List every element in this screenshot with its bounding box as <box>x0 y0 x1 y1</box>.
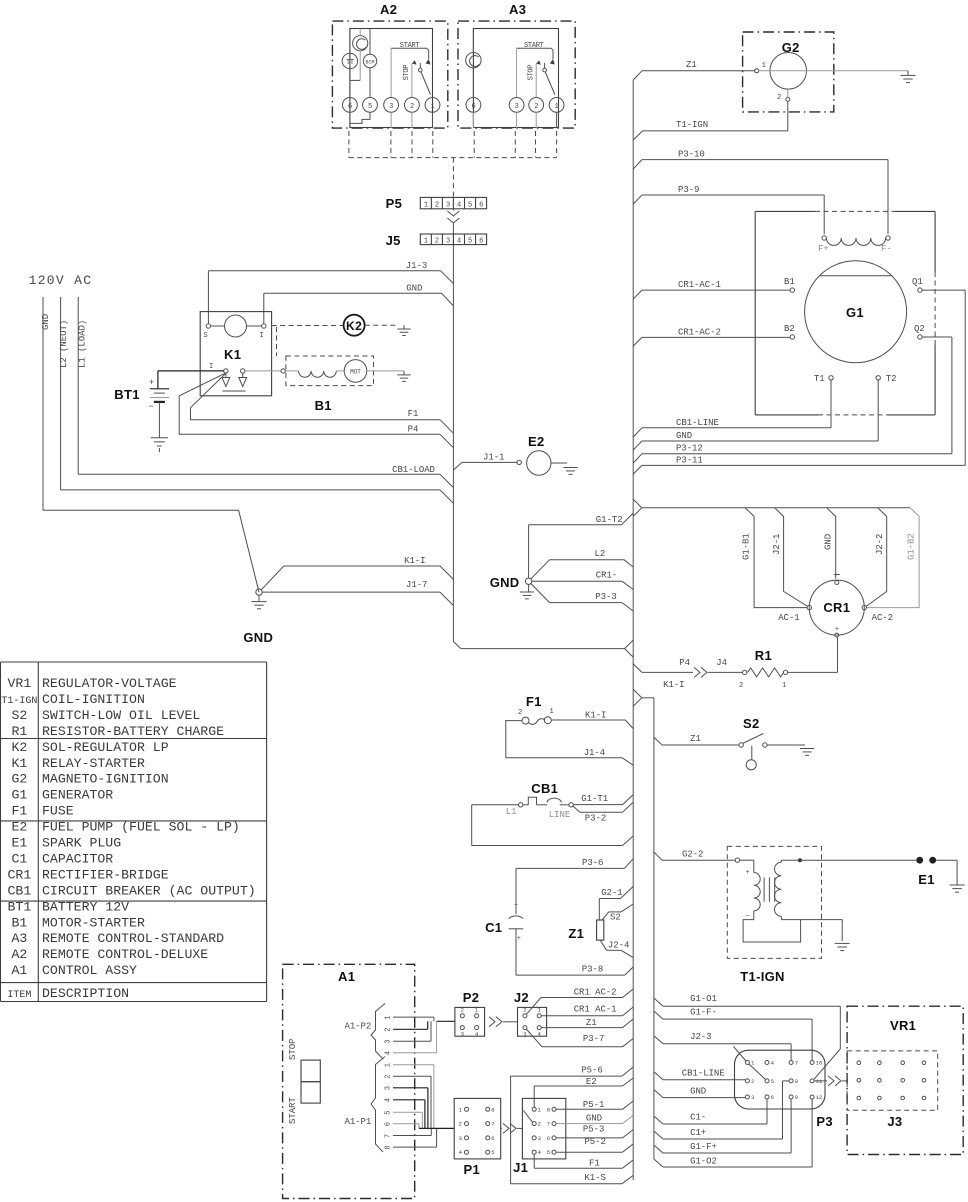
svg-text:REMOTE CONTROL-STANDARD: REMOTE CONTROL-STANDARD <box>42 931 224 946</box>
T1-IGN primary <box>740 859 754 861</box>
svg-text:8: 8 <box>547 1106 550 1113</box>
svg-text:4: 4 <box>457 201 461 209</box>
svg-text:4: 4 <box>385 1051 393 1055</box>
CR1 terminal AC-2 <box>862 605 866 609</box>
svg-text:GND: GND <box>490 575 520 590</box>
relay K1 box <box>200 312 271 396</box>
svg-text:GND: GND <box>586 1114 602 1124</box>
J1 internal diagonal <box>524 1111 533 1123</box>
svg-text:2: 2 <box>523 1007 526 1014</box>
field terminal F+ <box>822 236 826 240</box>
bundle arrow to branch <box>633 689 642 706</box>
S2 oil sensor <box>751 746 753 760</box>
svg-text:5: 5 <box>468 238 472 246</box>
svg-text:6: 6 <box>491 1135 494 1142</box>
svg-text:T1-IGN: T1-IGN <box>740 969 784 984</box>
ground hub junction <box>256 589 262 595</box>
svg-text:SWITCH-LOW OIL LEVEL: SWITCH-LOW OIL LEVEL <box>42 708 200 723</box>
svg-text:C1-: C1- <box>690 1113 706 1123</box>
connector J2 <box>518 1007 547 1036</box>
svg-text:2: 2 <box>435 238 439 246</box>
svg-text:P2: P2 <box>463 990 480 1005</box>
svg-text:P3-8: P3-8 <box>582 965 603 975</box>
connector P3 <box>735 1050 826 1109</box>
connector J5 <box>420 234 486 245</box>
svg-text:3: 3 <box>461 1030 464 1037</box>
svg-text:P3: P3 <box>816 1114 833 1129</box>
magneto G2 enclosure <box>743 32 834 112</box>
J3 pins <box>857 1061 861 1065</box>
svg-text:J1-4: J1-4 <box>584 748 605 758</box>
svg-text:CB1: CB1 <box>531 781 558 796</box>
svg-text:GND: GND <box>676 431 692 441</box>
svg-text:CB1-LINE: CB1-LINE <box>682 1069 725 1079</box>
svg-text:2: 2 <box>459 1121 462 1128</box>
svg-text:7: 7 <box>385 1134 393 1138</box>
svg-text:L1: L1 <box>506 807 517 817</box>
svg-text:VR1: VR1 <box>890 1018 916 1033</box>
svg-text:STOP: STOP <box>288 1039 298 1060</box>
A2 pin 1 <box>425 98 440 113</box>
svg-text:START: START <box>288 1097 298 1124</box>
svg-text:START: START <box>524 42 544 50</box>
A1-P1 bracket <box>371 1057 385 1153</box>
ground hub center <box>525 578 531 584</box>
P2 to J2 arrows <box>489 1017 495 1027</box>
svg-text:J2-3: J2-3 <box>690 1032 711 1042</box>
ground symbol E1 <box>950 884 965 886</box>
svg-text:8: 8 <box>491 1106 494 1113</box>
svg-text:2: 2 <box>518 709 522 717</box>
harness drop to P5 <box>452 158 454 198</box>
svg-text:+: + <box>835 626 839 634</box>
svg-text:CONTROL ASSY: CONTROL ASSY <box>42 963 137 978</box>
svg-text:K1-S: K1-S <box>584 1173 605 1183</box>
svg-text:3: 3 <box>523 1030 526 1037</box>
A3 pin 6 <box>466 98 481 113</box>
svg-text:K1: K1 <box>224 347 241 362</box>
svg-text:F1: F1 <box>526 694 542 709</box>
svg-text:6: 6 <box>547 1135 550 1142</box>
svg-text:C1+: C1+ <box>690 1128 706 1138</box>
parts list table <box>1 661 267 663</box>
svg-text:TT: TT <box>346 59 354 67</box>
svg-text:P5-3: P5-3 <box>583 1125 604 1135</box>
svg-text:K2: K2 <box>346 319 362 333</box>
svg-text:A1-P2: A1-P2 <box>345 1022 372 1032</box>
B1 terminal <box>281 369 285 373</box>
svg-text:1: 1 <box>431 103 435 111</box>
svg-text:CR1 AC-2: CR1 AC-2 <box>574 988 617 998</box>
line L1 LOAD <box>77 297 79 474</box>
svg-text:+: + <box>149 378 154 388</box>
svg-text:LINE: LINE <box>549 810 570 820</box>
sol-regulator K2 dashed wire <box>272 325 344 327</box>
svg-text:3: 3 <box>446 201 450 209</box>
svg-text:GND: GND <box>690 1087 706 1097</box>
svg-text:J5: J5 <box>386 233 401 248</box>
svg-text:G1-T2: G1-T2 <box>596 515 623 525</box>
svg-text:G1: G1 <box>11 788 27 803</box>
svg-text:CR1 AC-1: CR1 AC-1 <box>574 1005 617 1015</box>
spark plug E1 <box>916 857 923 864</box>
left bundle merge wire <box>461 648 625 650</box>
svg-text:10: 10 <box>816 1060 823 1067</box>
svg-text:G1-F-: G1-F- <box>690 1008 717 1018</box>
svg-text:B1: B1 <box>315 398 332 413</box>
svg-text:5: 5 <box>547 1149 550 1156</box>
A2 pin 6 <box>343 98 358 113</box>
svg-text:1: 1 <box>385 1016 393 1020</box>
svg-text:AC-2: AC-2 <box>872 613 893 623</box>
P3 pin1 to pin5 diagonal <box>749 1064 766 1080</box>
svg-text:BT1: BT1 <box>8 899 32 914</box>
svg-text:G1-B1: G1-B1 <box>741 533 751 560</box>
svg-text:C1: C1 <box>485 920 502 935</box>
svg-text:J4: J4 <box>716 658 727 668</box>
svg-text:−: − <box>514 902 518 910</box>
svg-text:F1: F1 <box>11 804 27 819</box>
svg-text:RELAY-STARTER: RELAY-STARTER <box>42 756 145 771</box>
svg-text:CB1-LINE: CB1-LINE <box>676 418 719 428</box>
svg-text:B1: B1 <box>784 277 795 287</box>
svg-text:2: 2 <box>385 1075 393 1079</box>
G2 pin 2 <box>786 97 790 101</box>
svg-text:C1: C1 <box>11 851 27 866</box>
svg-text:P3-2: P3-2 <box>585 814 606 824</box>
svg-text:A1-P1: A1-P1 <box>345 1117 372 1127</box>
svg-text:J2: J2 <box>514 990 529 1005</box>
svg-text:P1: P1 <box>464 1162 481 1177</box>
svg-text:SPARK PLUG: SPARK PLUG <box>42 836 121 851</box>
T1-IGN core <box>763 877 765 901</box>
svg-text:GND: GND <box>41 314 51 330</box>
svg-text:G1-O1: G1-O1 <box>690 994 717 1004</box>
svg-text:ITEM: ITEM <box>7 990 31 1001</box>
svg-text:P5-6: P5-6 <box>581 1066 602 1076</box>
svg-text:J3: J3 <box>887 1114 902 1129</box>
connector P1 <box>454 1098 501 1159</box>
K1 contact arrows <box>225 373 227 377</box>
line GND <box>42 297 44 510</box>
svg-text:7: 7 <box>491 1121 494 1128</box>
svg-text:F1: F1 <box>589 1159 600 1169</box>
wire to spark plug <box>800 859 916 861</box>
ground symbol E2 <box>563 467 577 469</box>
merge arrow into right bus <box>625 640 634 657</box>
svg-text:2: 2 <box>739 682 743 690</box>
wire K1 to B1 <box>245 370 281 372</box>
right bundle bus <box>632 80 634 1180</box>
svg-text:REGULATOR-VOLTAGE: REGULATOR-VOLTAGE <box>42 676 177 691</box>
svg-text:J1-3: J1-3 <box>406 261 427 271</box>
svg-text:A1: A1 <box>11 963 27 978</box>
A2 pin 2 <box>405 98 420 113</box>
svg-text:MOT: MOT <box>350 368 361 375</box>
svg-text:S2: S2 <box>11 708 27 723</box>
svg-text:P5-1: P5-1 <box>583 1100 604 1110</box>
svg-text:RESISTOR-BATTERY CHARGE: RESISTOR-BATTERY CHARGE <box>42 724 224 739</box>
remote control standard A3 enclosure <box>458 21 575 128</box>
A2 pin5-6 link <box>350 112 370 123</box>
svg-text:MOTOR-STARTER: MOTOR-STARTER <box>42 915 145 930</box>
svg-text:E2: E2 <box>11 820 27 835</box>
svg-text:J2-4: J2-4 <box>608 941 629 951</box>
svg-text:+: + <box>745 869 749 877</box>
svg-text:J1: J1 <box>513 1160 528 1175</box>
svg-text:CB1: CB1 <box>8 883 32 898</box>
B1 inductor <box>299 371 337 377</box>
svg-text:120V AC: 120V AC <box>29 273 93 288</box>
ground symbol K2 <box>397 328 411 330</box>
svg-text:A2: A2 <box>11 947 27 962</box>
svg-text:SOL-REGULATOR LP: SOL-REGULATOR LP <box>42 740 169 755</box>
K1 coil <box>225 315 247 337</box>
svg-text:6: 6 <box>771 1094 774 1101</box>
A2 pin 3 <box>384 98 399 113</box>
svg-text:P3-9: P3-9 <box>678 185 699 195</box>
ground symbol T1-IGN <box>835 942 850 944</box>
wire GND to ground hub <box>43 509 239 511</box>
svg-text:B2: B2 <box>784 324 795 334</box>
regulator VR1 enclosure <box>847 1006 963 1154</box>
svg-text:DESCRIPTION: DESCRIPTION <box>42 986 129 1001</box>
ground symbol B1 <box>397 374 411 376</box>
svg-text:3: 3 <box>446 238 450 246</box>
svg-text:1: 1 <box>555 103 559 111</box>
svg-text:7: 7 <box>795 1060 798 1067</box>
svg-text:2: 2 <box>435 201 439 209</box>
svg-text:5: 5 <box>468 201 472 209</box>
junction dot <box>798 858 802 862</box>
svg-text:P5-2: P5-2 <box>584 1137 605 1147</box>
wire bundle to P1 <box>419 1127 454 1129</box>
ground symbol center hub <box>528 584 530 592</box>
A2 internal wiring <box>349 29 351 54</box>
wire Q1 out <box>922 289 965 291</box>
svg-text:2: 2 <box>534 103 538 111</box>
G2 pin 1 <box>755 69 759 73</box>
svg-text:FUSE: FUSE <box>42 804 74 819</box>
svg-text:P3-6: P3-6 <box>582 858 603 868</box>
A2 start wire <box>391 48 429 59</box>
svg-text:L1 (LOAD): L1 (LOAD) <box>77 320 87 368</box>
svg-text:I: I <box>209 363 213 371</box>
svg-text:8: 8 <box>385 1146 393 1150</box>
svg-text:STOP: STOP <box>403 65 411 81</box>
wire battery to K1 common <box>158 370 224 372</box>
svg-text:Q1: Q1 <box>912 277 923 287</box>
bundle arrow right bus <box>633 499 642 516</box>
svg-text:E1: E1 <box>918 872 935 887</box>
wire L2 neutral to bus <box>61 489 440 491</box>
svg-text:7: 7 <box>547 1121 550 1128</box>
remote control deluxe A2 enclosure <box>332 21 447 128</box>
svg-text:CR1-AC-1: CR1-AC-1 <box>678 280 721 290</box>
wire bundle to P2 <box>437 1020 455 1022</box>
svg-text:CR1: CR1 <box>8 867 32 882</box>
G1 terminal T2 <box>876 376 880 380</box>
svg-text:−: − <box>148 402 153 412</box>
svg-text:T2: T2 <box>886 374 897 384</box>
svg-text:G1-F+: G1-F+ <box>690 1142 717 1152</box>
svg-text:G1-B2: G1-B2 <box>907 533 917 560</box>
svg-text:CR1: CR1 <box>823 600 850 615</box>
svg-text:BT1: BT1 <box>114 387 139 402</box>
svg-text:K1-I: K1-I <box>663 680 684 690</box>
E2 ground wire <box>551 462 567 464</box>
svg-text:MAGNETO-IGNITION: MAGNETO-IGNITION <box>42 772 169 787</box>
svg-text:F+: F+ <box>818 244 829 254</box>
svg-text:8: 8 <box>795 1078 798 1085</box>
A2 inner box <box>350 29 433 128</box>
P5 to J5 mating arrows <box>452 197 454 210</box>
ground symbol S2 <box>801 744 805 746</box>
svg-text:1: 1 <box>424 201 428 209</box>
svg-text:2: 2 <box>751 1078 754 1085</box>
svg-text:G2-1: G2-1 <box>601 888 622 898</box>
generator G1 rotor <box>805 261 907 363</box>
svg-text:J2-1: J2-1 <box>772 534 782 555</box>
B1 motor MOT <box>336 370 344 372</box>
S2 ground wire <box>767 744 801 746</box>
svg-text:Z1: Z1 <box>690 734 701 744</box>
field terminal F- <box>886 236 890 240</box>
E1 ground wire <box>936 859 957 861</box>
svg-text:CR1-: CR1- <box>596 571 617 581</box>
A3 horn circle <box>466 53 481 68</box>
battery ground wire <box>158 402 160 438</box>
A3 pin 2 <box>529 98 544 113</box>
svg-text:A3: A3 <box>509 2 526 17</box>
svg-text:G1-O2: G1-O2 <box>690 1157 717 1167</box>
resistor R1 <box>743 670 747 674</box>
svg-text:L2: L2 <box>595 549 606 559</box>
svg-text:K2: K2 <box>11 740 27 755</box>
svg-text:A3: A3 <box>11 931 27 946</box>
motor-starter B1 dashed box <box>286 356 374 386</box>
P3 pin1 lead <box>734 1047 747 1062</box>
A2 stop wire <box>411 64 413 98</box>
svg-text:I: I <box>260 332 264 340</box>
svg-text:5: 5 <box>368 103 372 111</box>
svg-text:5: 5 <box>771 1078 774 1085</box>
svg-text:BATTERY 12V: BATTERY 12V <box>42 899 129 914</box>
svg-text:6: 6 <box>479 201 483 209</box>
svg-text:T1: T1 <box>814 374 825 384</box>
svg-text:9: 9 <box>795 1094 798 1101</box>
field coil <box>826 238 885 245</box>
svg-text:3: 3 <box>389 103 393 111</box>
branch bus <box>642 697 654 699</box>
svg-text:S: S <box>204 332 208 340</box>
svg-text:E2: E2 <box>528 434 545 449</box>
svg-text:J2-2: J2-2 <box>875 534 885 555</box>
battery BT1 <box>157 371 159 389</box>
A2 switch blade <box>419 68 423 72</box>
svg-text:BCM: BCM <box>365 59 374 65</box>
P1 to J1 arrows <box>501 1127 502 1129</box>
svg-text:A2: A2 <box>380 2 397 17</box>
svg-text:J1-7: J1-7 <box>406 580 427 590</box>
A3 internal wiring <box>472 29 474 53</box>
svg-text:P4: P4 <box>408 425 419 435</box>
svg-text:Z1: Z1 <box>568 926 584 941</box>
svg-text:CAPACITOR: CAPACITOR <box>42 851 113 866</box>
K1 terminal I <box>262 324 266 328</box>
control assy A1 enclosure <box>283 964 415 1198</box>
rectifier CR1 <box>809 580 864 635</box>
svg-text:T1-IGN: T1-IGN <box>1 696 37 707</box>
svg-text:P3-7: P3-7 <box>583 1034 604 1044</box>
connector J3 dashed <box>847 1051 938 1110</box>
svg-text:5: 5 <box>491 1149 494 1156</box>
svg-text:3: 3 <box>751 1094 754 1101</box>
wire R1 to CR1 <box>788 671 838 673</box>
svg-text:B1: B1 <box>11 915 27 930</box>
connector J1 <box>522 1098 565 1159</box>
P3 to J3 arrows <box>814 1080 827 1082</box>
svg-text:G1: G1 <box>846 305 864 320</box>
T1-IGN secondary <box>775 862 782 916</box>
rectifier feed wire <box>642 507 910 509</box>
svg-text:12: 12 <box>816 1094 823 1101</box>
svg-text:2: 2 <box>410 103 414 111</box>
svg-text:4: 4 <box>385 1098 393 1102</box>
T1-IGN primary terminal <box>735 858 739 862</box>
svg-text:VR1: VR1 <box>8 676 32 691</box>
ground symbol G2 <box>907 71 909 76</box>
A1 buttons <box>301 1060 320 1082</box>
svg-text:P3-10: P3-10 <box>678 150 705 160</box>
connector P2 <box>455 1007 485 1036</box>
svg-text:P3-11: P3-11 <box>676 455 703 465</box>
svg-text:F-: F- <box>881 244 892 254</box>
harness dashed bus <box>349 157 557 159</box>
svg-text:G2-2: G2-2 <box>682 850 703 860</box>
A3 switch blade <box>543 68 547 72</box>
line L2 NEUT <box>60 297 62 490</box>
K2 circle <box>344 315 365 336</box>
K1 terminal S <box>206 324 210 328</box>
svg-text:Z1: Z1 <box>686 60 697 70</box>
svg-text:6: 6 <box>479 238 483 246</box>
svg-text:3: 3 <box>385 1040 393 1044</box>
svg-text:1: 1 <box>424 238 428 246</box>
A2 horn circle <box>353 36 368 51</box>
svg-text:REMOTE CONTROL-DELUXE: REMOTE CONTROL-DELUXE <box>42 947 208 962</box>
connector P5 <box>420 197 486 208</box>
svg-text:GND: GND <box>824 534 834 550</box>
CR1 terminal minus <box>835 581 839 585</box>
wire L1 to bus <box>472 804 519 806</box>
svg-text:1: 1 <box>385 1063 393 1067</box>
svg-text:AC-1: AC-1 <box>778 613 799 623</box>
magneto G2 <box>770 53 807 90</box>
svg-text:3: 3 <box>515 103 519 111</box>
svg-text:GENERATOR: GENERATOR <box>42 788 113 803</box>
fuel pump E2 <box>527 451 551 475</box>
svg-text:P5: P5 <box>386 196 403 211</box>
svg-text:6: 6 <box>385 1122 393 1126</box>
K2 dashed corner <box>276 327 278 356</box>
A3 stop wire <box>535 64 537 98</box>
svg-text:2: 2 <box>777 94 781 102</box>
svg-text:J1-1: J1-1 <box>483 453 504 463</box>
svg-text:3: 3 <box>385 1086 393 1090</box>
K2 dashed wire to ground <box>365 324 396 326</box>
svg-text:2: 2 <box>461 1007 464 1014</box>
